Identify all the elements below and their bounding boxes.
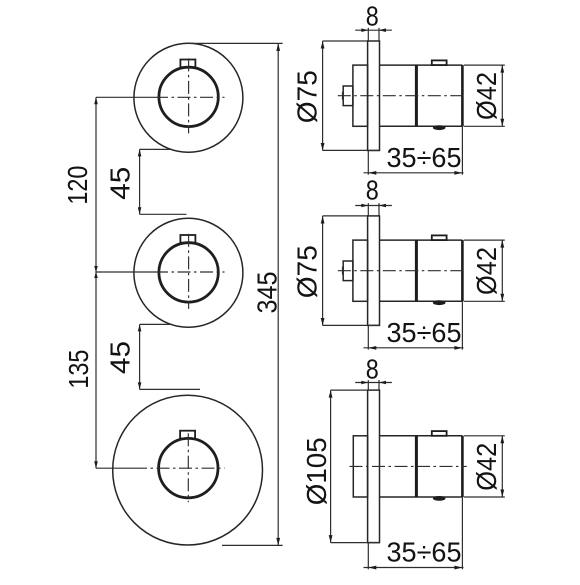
svg-text:45: 45 [105, 341, 136, 374]
side view 3: handle body outline [380, 435, 463, 437]
side view 3: handle rear flange (thick) [415, 436, 418, 497]
svg-text:Ø42: Ø42 [471, 443, 502, 491]
side view 1: index tab bottom [433, 125, 446, 130]
side view 2: in-wall valve body [353, 240, 368, 301]
svg-text:Ø105: Ø105 [301, 437, 332, 505]
middle handle index tab [180, 235, 195, 243]
svg-text:8: 8 [366, 0, 379, 31]
bottom handle index tab [180, 431, 195, 439]
side view 2: handle face (thick) [461, 240, 464, 301]
dimension 120 (top to middle center) [95, 97, 97, 272]
bottom handle knob circle [159, 438, 218, 497]
svg-text:8: 8 [366, 354, 379, 385]
side view 1: dimension 35÷65 (depth range) [367, 150, 369, 174]
side view 2: handle rear flange (thick) [415, 240, 418, 301]
side view 1: dimension 8 (plate thickness) [367, 28, 369, 41]
side view 2: dimension 35÷65 (depth range) [367, 325, 369, 349]
side view 1: in-wall valve body [353, 65, 368, 126]
side view 3: dimension 35÷65 (depth range) [367, 543, 369, 570]
bottom plate circle (front view) [113, 395, 263, 545]
middle circle vertical centerline [188, 234, 190, 309]
side view 2: centerline [338, 270, 467, 272]
side view 3: dimension 8 (plate thickness) [367, 380, 369, 390]
side view 1: inlet stub [343, 86, 353, 106]
top circle vertical centerline [188, 58, 190, 133]
side view 2: wall plate [368, 216, 380, 326]
side view 3: centerline [350, 465, 467, 467]
side view 1: handle rear flange (thick) [415, 65, 418, 126]
side view 2: inlet stub [343, 261, 353, 281]
dimension 345 (overall height) [189, 42, 283, 44]
dimension 45 (gap middle-bottom) [140, 323, 171, 325]
svg-text:135: 135 [63, 350, 94, 389]
side view 2: handle body outline [380, 239, 463, 241]
svg-text:35÷65: 35÷65 [387, 537, 462, 568]
top handle knob circle [159, 67, 218, 126]
svg-text:Ø75: Ø75 [291, 245, 322, 298]
side view 1: handle face (thick) [461, 65, 464, 126]
top plate circle (front view) [134, 43, 243, 152]
side view 1: wall plate [368, 41, 380, 151]
svg-text:45: 45 [105, 167, 136, 200]
svg-text:35÷65: 35÷65 [387, 317, 462, 348]
side view 3: index tab bottom [433, 496, 446, 501]
side view 3: handle face (thick) [461, 436, 464, 497]
side view 1: dimension Ø42 (handle diameter) [464, 64, 505, 66]
bottom circle vertical centerline [187, 433, 189, 502]
svg-text:345: 345 [252, 272, 283, 314]
side view 1: centerline [338, 95, 467, 97]
side view 1: handle body outline [380, 64, 463, 66]
horizontal centerline + extension, middle circle [96, 271, 155, 273]
side view 2: dimension Ø75 (plate diameter) [323, 215, 368, 217]
middle plate circle (front view) [134, 218, 243, 327]
side view 2: index tab top [432, 235, 447, 240]
side view 3: dimension Ø105 (plate diameter) [331, 389, 368, 391]
top handle index tab [180, 60, 195, 68]
side view 3: wall plate [368, 390, 380, 542]
svg-text:120: 120 [62, 166, 93, 205]
svg-text:Ø42: Ø42 [471, 72, 502, 120]
svg-text:Ø42: Ø42 [471, 247, 502, 295]
dimension 45 (gap top-middle) [140, 148, 171, 150]
side view 2: dimension 8 (plate thickness) [367, 203, 369, 216]
side view 3: dimension Ø42 (handle diameter) [464, 435, 505, 437]
horizontal centerline + extension, top circle [96, 96, 155, 98]
svg-text:35÷65: 35÷65 [387, 142, 462, 173]
middle handle knob circle [159, 243, 218, 302]
side view 1: index tab top [432, 60, 447, 65]
side view 2: index tab bottom [433, 300, 446, 305]
svg-text:8: 8 [366, 174, 379, 205]
side view 3: in-wall valve body [353, 436, 367, 497]
horizontal centerline + extension, bottom circle [96, 467, 134, 469]
dimension 135 (middle to bottom center) [95, 272, 97, 468]
svg-text:Ø75: Ø75 [291, 70, 322, 123]
side view 3: index tab top [432, 431, 447, 436]
side view 1: dimension Ø75 (plate diameter) [323, 40, 368, 42]
side view 2: dimension Ø42 (handle diameter) [464, 239, 505, 241]
